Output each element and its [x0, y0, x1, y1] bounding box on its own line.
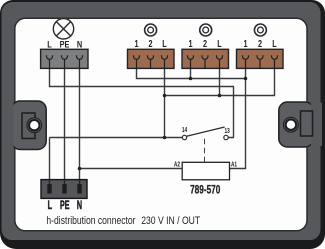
svg-text:A2: A2: [174, 162, 181, 169]
svg-text:2: 2: [258, 38, 262, 49]
svg-text:1: 1: [134, 38, 138, 49]
svg-text:L: L: [48, 199, 52, 212]
svg-text:2: 2: [203, 38, 207, 49]
svg-text:A1: A1: [231, 162, 238, 169]
svg-text:h-distribution connector: h-distribution connector: [46, 215, 136, 227]
svg-text:1: 1: [243, 38, 247, 49]
svg-text:PE: PE: [60, 199, 70, 212]
svg-text:L: L: [47, 38, 52, 49]
svg-text:789-570: 789-570: [190, 184, 221, 197]
svg-text:14: 14: [182, 128, 188, 135]
svg-text:13: 13: [225, 128, 231, 135]
svg-text:N: N: [77, 38, 82, 49]
svg-text:L: L: [217, 38, 221, 49]
svg-text:1: 1: [188, 38, 192, 49]
svg-text:2: 2: [148, 38, 152, 49]
svg-text:L: L: [272, 38, 276, 49]
svg-text:PE: PE: [60, 38, 70, 49]
svg-text:230 V IN / OUT: 230 V IN / OUT: [141, 215, 200, 227]
svg-text:L: L: [162, 38, 166, 49]
svg-text:N: N: [77, 199, 82, 212]
